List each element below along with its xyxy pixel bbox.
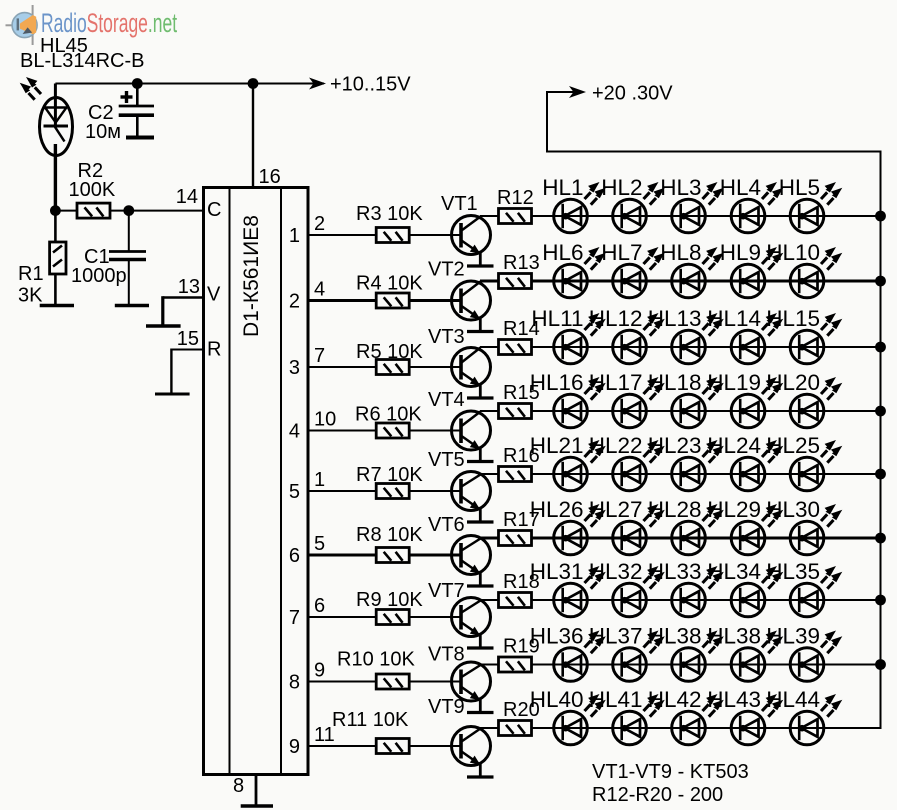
LED HL16 (530, 370, 606, 428)
LED HL19 (707, 370, 783, 428)
transistor VT8 (452, 662, 491, 712)
svg-text:R1: R1 (18, 263, 44, 285)
svg-text:HL12: HL12 (589, 306, 643, 331)
wire +10..15V rail (55, 83, 324, 85)
svg-text:HL2: HL2 (601, 175, 642, 200)
resistor R15 (499, 404, 532, 419)
svg-text:10м: 10м (85, 121, 121, 143)
LED HL11 (531, 306, 605, 364)
svg-text:R9 10K: R9 10K (356, 589, 423, 611)
wire +20..30V stub (546, 92, 548, 153)
junction C2/top rail (132, 78, 143, 89)
ground VT5 emitter (467, 520, 494, 523)
LED HL23 (648, 433, 724, 491)
LED HL9 (720, 240, 784, 298)
logo crosshair lines (6, 5, 33, 45)
wire IC output 8 to VT8 base (308, 681, 461, 683)
junction LED row 3 / +20V rail (875, 342, 886, 353)
svg-text:9: 9 (289, 736, 300, 758)
LED HL42 (648, 687, 724, 745)
ground C1 (115, 304, 149, 308)
wire pin 8 (255, 775, 258, 806)
svg-text:10: 10 (314, 409, 336, 431)
wire IC output 4 to VT4 base (308, 430, 461, 432)
logo text RadioStorage.net (41, 8, 178, 38)
resistor R9 10K (376, 610, 409, 625)
svg-text:R4 10K: R4 10K (356, 273, 423, 295)
svg-text:VT2: VT2 (428, 259, 465, 281)
LED HL10 (766, 240, 842, 298)
svg-text:VT8: VT8 (428, 644, 465, 666)
svg-text:100K: 100K (69, 179, 116, 201)
wire VT5 collector LED row 5 (480, 473, 881, 475)
resistor R5 10K (376, 360, 409, 375)
ground VT1 emitter (467, 264, 494, 267)
wire +20..30V rail vertical (880, 151, 882, 730)
svg-text:HL17: HL17 (589, 370, 643, 395)
svg-text:R10 10K: R10 10K (337, 649, 415, 671)
wire IC output 7 to VT7 base (308, 616, 461, 618)
svg-text:13: 13 (178, 276, 200, 298)
svg-text:HL38: HL38 (707, 624, 761, 649)
resistor R7 10K (376, 484, 409, 499)
wire R1 to ground (54, 274, 57, 304)
svg-text:R5 10K: R5 10K (356, 341, 423, 363)
svg-text:9: 9 (314, 660, 325, 682)
resistor R3 10K (376, 228, 409, 243)
wire IC output 5 to VT5 base (308, 490, 461, 492)
svg-text:R13: R13 (503, 252, 540, 274)
resistor R18 (499, 593, 532, 608)
resistor R17 (499, 531, 532, 546)
svg-text:HL4: HL4 (720, 175, 761, 200)
svg-text:HL43: HL43 (707, 687, 761, 712)
wire IC output 9 to VT9 base (308, 745, 461, 747)
svg-text:R6 10K: R6 10K (355, 404, 422, 426)
wire node A to R1 (54, 211, 57, 242)
svg-text:HL14: HL14 (707, 306, 761, 331)
LED HL43 (707, 687, 783, 745)
svg-text:7: 7 (289, 607, 300, 629)
transistor VT1 (452, 216, 491, 266)
svg-text:15: 15 (177, 328, 199, 350)
svg-text:+20 .30V: +20 .30V (592, 83, 673, 105)
svg-text:VT4: VT4 (428, 389, 465, 411)
resistor R19 (499, 657, 532, 672)
svg-text:HL32: HL32 (589, 559, 643, 584)
LED HL38 (707, 624, 783, 682)
resistor R20 (499, 721, 532, 736)
arrowhead +10..15V (309, 78, 326, 90)
wire VT9 collector LED row 9 (480, 727, 881, 729)
resistor R11 10K (376, 739, 409, 754)
wire VT7 collector LED row 7 (480, 599, 881, 601)
wire VT8 collector LED row 8 (480, 664, 881, 666)
svg-text:3K: 3K (18, 285, 43, 307)
wire VT2 collector LED row 2 (480, 280, 881, 283)
svg-text:R12-R20 - 200: R12-R20 - 200 (592, 784, 723, 806)
resistor R16 (499, 467, 532, 482)
wire IC output 3 to VT3 base (308, 366, 461, 368)
junction pin16/top rail (248, 78, 259, 89)
ground R1 (40, 304, 74, 308)
svg-text:VT9: VT9 (428, 696, 465, 718)
resistor R8 10K (376, 548, 409, 563)
svg-text:8: 8 (233, 775, 244, 797)
HL45 light arrows (20, 77, 41, 100)
wire R2 to node B (110, 210, 129, 212)
svg-text:HL25: HL25 (766, 433, 820, 458)
LED HL5 (779, 175, 843, 233)
LED HL6 (542, 240, 606, 298)
svg-text:14: 14 (176, 186, 198, 208)
svg-text:HL1: HL1 (542, 175, 583, 200)
wire IC pin 13 V to ground (163, 296, 203, 326)
svg-text:VT5: VT5 (428, 449, 465, 471)
svg-text:HL36: HL36 (530, 624, 584, 649)
svg-text:2: 2 (314, 213, 325, 235)
resistor R2 (77, 203, 110, 218)
LED HL14 (707, 306, 783, 364)
svg-text:HL23: HL23 (648, 433, 702, 458)
svg-text:R11 10K: R11 10K (332, 709, 409, 731)
LED HL2 (601, 175, 665, 233)
LED HL41 (589, 687, 665, 745)
resistor R1 (50, 242, 66, 274)
LED HL15 (766, 306, 842, 364)
wire IC output 6 to VT6 base (308, 554, 461, 557)
LED HL37 (589, 624, 665, 682)
svg-text:R7 10K: R7 10K (356, 464, 423, 486)
svg-text:16: 16 (259, 166, 281, 188)
svg-text:HL5: HL5 (779, 175, 820, 200)
svg-text:HL29: HL29 (707, 497, 761, 522)
svg-text:HL21: HL21 (530, 433, 584, 458)
ground VT6 emitter (467, 584, 494, 587)
svg-text:HL37: HL37 (589, 624, 643, 649)
svg-text:2: 2 (289, 291, 300, 313)
resistor R12 (499, 209, 532, 224)
LED HL4 (720, 175, 784, 233)
svg-text:7: 7 (314, 345, 325, 367)
svg-text:HL9: HL9 (720, 240, 761, 265)
junction LED row 5 / +20V rail (875, 469, 886, 480)
svg-text:HL6: HL6 (542, 240, 583, 265)
svg-text:RadioStorage.net: RadioStorage.net (41, 8, 178, 38)
svg-text:R12: R12 (497, 187, 534, 209)
LED HL44 (766, 687, 842, 745)
wire node A to R2 (55, 210, 77, 212)
ground pin 8 (241, 804, 273, 808)
wire IC output 2 to VT2 base (308, 299, 461, 302)
svg-text:V: V (207, 284, 221, 306)
LED HL20 (766, 370, 842, 428)
svg-text:1: 1 (289, 225, 300, 247)
svg-text:HL26: HL26 (530, 497, 584, 522)
wire IC output 1 to VT1 base (308, 234, 461, 236)
svg-text:HL18: HL18 (648, 370, 702, 395)
svg-text:HL15: HL15 (766, 306, 820, 331)
LED HL24 (707, 433, 783, 491)
logo circle icon (12, 13, 37, 38)
capacitor C2 (119, 106, 154, 136)
LED HL1 (542, 175, 606, 233)
svg-text:6: 6 (314, 595, 325, 617)
LED HL40 (530, 687, 606, 745)
svg-text:VT1: VT1 (441, 193, 478, 215)
ground VT2 emitter (467, 330, 494, 333)
svg-text:HL24: HL24 (707, 433, 761, 458)
transistor VT3 (452, 348, 491, 398)
ground C2 (126, 136, 154, 140)
svg-text:HL41: HL41 (589, 687, 643, 712)
wire HL45 top lead (54, 84, 57, 127)
wire VT1 collector LED row 1 (480, 215, 881, 217)
svg-text:HL40: HL40 (530, 687, 584, 712)
LED HL29 (707, 497, 783, 555)
svg-text:HL33: HL33 (648, 559, 702, 584)
IC D1 K561IE8 body (204, 188, 309, 775)
svg-text:1: 1 (314, 469, 325, 491)
resistor R4 10K (376, 293, 409, 308)
wire VT4 collector LED row 4 (480, 410, 881, 412)
svg-text:R: R (207, 339, 221, 361)
resistor R6 10K (376, 423, 409, 438)
svg-text:VT3: VT3 (428, 326, 465, 348)
wire C2 top lead (136, 84, 139, 107)
LED HL21 (530, 433, 606, 491)
LED HL34 (707, 559, 783, 617)
wire VT6 collector LED row 6 (480, 537, 881, 540)
ground VT3 emitter (467, 396, 494, 399)
svg-text:HL22: HL22 (589, 433, 643, 458)
svg-text:5: 5 (314, 533, 325, 555)
svg-text:5: 5 (289, 481, 300, 503)
node A junction (HL45/R1/R2) (50, 205, 61, 216)
LED HL31 (530, 559, 606, 617)
ground VT7 emitter (467, 646, 494, 649)
transistor VT6 (452, 536, 491, 586)
junction LED row 8 / +20V rail (875, 659, 886, 670)
transistor VT9 (452, 727, 491, 777)
LED HL28 (648, 497, 724, 555)
svg-text:HL30: HL30 (766, 497, 820, 522)
svg-text:HL8: HL8 (660, 240, 701, 265)
svg-text:HL16: HL16 (530, 370, 584, 395)
transistor VT5 (452, 472, 491, 522)
LED HL27 (589, 497, 665, 555)
svg-text:HL27: HL27 (589, 497, 643, 522)
junction LED row 4 / +20V rail (875, 406, 886, 417)
ground VT4 emitter (467, 460, 494, 463)
svg-text:4: 4 (289, 421, 300, 443)
wire node B to C1 (128, 211, 130, 252)
svg-text:HL10: HL10 (766, 240, 820, 265)
svg-text:HL44: HL44 (766, 687, 820, 712)
svg-text:3: 3 (289, 357, 300, 379)
svg-text:HL34: HL34 (707, 559, 761, 584)
svg-text:HL13: HL13 (648, 306, 702, 331)
svg-text:HL20: HL20 (766, 370, 820, 395)
transistor VT7 (452, 598, 491, 648)
LED HL8 (660, 240, 724, 298)
svg-text:R3 10K: R3 10K (356, 203, 423, 225)
wire node B to IC pin 14 (129, 210, 203, 212)
ground pin 15 (155, 393, 190, 396)
arrowhead +20..30V (569, 86, 586, 98)
wire +20..30V arrow (546, 91, 578, 93)
resistor R13 (499, 274, 532, 289)
wire pin 16 (252, 84, 254, 188)
LED HL13 (648, 306, 724, 364)
resistor R10 10K (376, 674, 409, 689)
wire IC pin 15 R to ground (171, 349, 203, 394)
svg-text:HL11: HL11 (531, 306, 583, 331)
ground VT8 emitter (467, 711, 494, 714)
LED HL38 (648, 624, 724, 682)
svg-text:C: C (207, 199, 221, 221)
transistor VT2 (452, 281, 491, 331)
svg-text:HL3: HL3 (660, 175, 701, 200)
svg-text:HL38: HL38 (648, 624, 702, 649)
svg-text:HL39: HL39 (766, 624, 820, 649)
LED HL25 (766, 433, 842, 491)
svg-text:4: 4 (314, 279, 325, 301)
svg-text:HL28: HL28 (648, 497, 702, 522)
LED HL22 (589, 433, 665, 491)
LED HL3 (660, 175, 724, 233)
LED HL32 (589, 559, 665, 617)
junction LED row 2 / +20V rail (875, 276, 886, 287)
svg-text:BL-L314RC-B: BL-L314RC-B (20, 50, 145, 72)
wire +20..30V rail horizontal (547, 151, 881, 153)
LED HL26 (530, 497, 606, 555)
node B junction (R2/C1/pin14) (123, 205, 134, 216)
svg-text:1000p: 1000p (71, 265, 127, 287)
C2 plus sign (121, 91, 133, 103)
wire VT3 collector LED row 3 (480, 346, 881, 348)
svg-text:HL31: HL31 (530, 559, 584, 584)
LED HL7 (601, 240, 665, 298)
svg-text:HL35: HL35 (766, 559, 820, 584)
LED HL35 (766, 559, 842, 617)
LED HL36 (530, 624, 606, 682)
LED HL30 (766, 497, 842, 555)
svg-text:HL42: HL42 (648, 687, 702, 712)
LED HL33 (648, 559, 724, 617)
LED HL18 (648, 370, 724, 428)
svg-text:6: 6 (289, 545, 300, 567)
svg-text:VT7: VT7 (428, 580, 465, 602)
junction LED row 7 / +20V rail (875, 595, 886, 606)
svg-text:R8 10K: R8 10K (356, 524, 423, 546)
LED HL17 (589, 370, 665, 428)
junction LED row 6 / +20V rail (875, 533, 886, 544)
transistor VT4 (452, 411, 491, 461)
svg-text:VT1-VT9 - KT503: VT1-VT9 - KT503 (592, 761, 749, 783)
resistor R14 (499, 340, 532, 355)
svg-text:D1-К561ИЕ8: D1-К561ИЕ8 (240, 215, 263, 337)
junction LED row 1 / +20V rail (875, 211, 886, 222)
ground VT9 emitter (467, 775, 494, 778)
svg-text:VT6: VT6 (428, 514, 465, 536)
svg-text:8: 8 (289, 672, 300, 694)
LED HL12 (589, 306, 665, 364)
LED HL39 (766, 624, 842, 682)
svg-text:HL19: HL19 (707, 370, 761, 395)
svg-text:HL7: HL7 (601, 240, 642, 265)
capacitor C1 (109, 252, 146, 305)
svg-text:+10..15V: +10..15V (330, 74, 411, 96)
photodetector HL45 (40, 98, 73, 156)
ground pin 13 (146, 324, 181, 328)
wire HL45 bottom lead to node A (54, 144, 57, 211)
